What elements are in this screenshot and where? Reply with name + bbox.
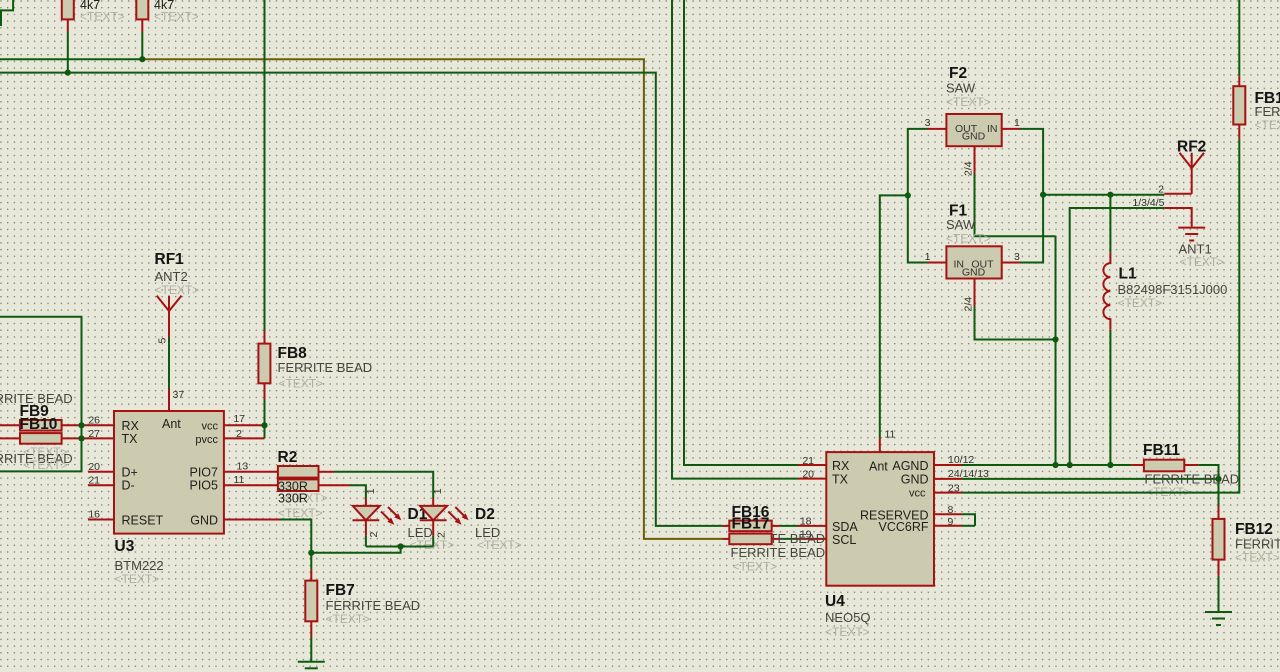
svg-text:2: 2 [368, 532, 380, 538]
wire: F1 pin 1 stub [928, 262, 947, 264]
svg-text:3: 3 [925, 117, 931, 129]
SAW filter F2 [946, 65, 1002, 146]
svg-text:1: 1 [925, 251, 931, 263]
wire: FB11 to FB12 vertical [1198, 465, 1218, 506]
svg-text:8: 8 [948, 504, 954, 516]
svg-text:<TEXT>: <TEXT> [155, 283, 200, 297]
ground symbol (below FB7) [298, 662, 325, 669]
wire: cathode joining run [366, 546, 433, 548]
wire: FB7 to ground [310, 638, 312, 662]
svg-text:Ant: Ant [869, 460, 888, 474]
svg-text:<TEXT>: <TEXT> [1235, 551, 1280, 565]
svg-text:17: 17 [233, 413, 245, 425]
node: junction SAW gnd / AGND [1052, 462, 1058, 468]
svg-text:TX: TX [122, 432, 139, 446]
wire: D1 cathode down [365, 520, 367, 546]
svg-text:FB10: FB10 [20, 416, 58, 433]
wire: U3 left loop (enters left edge) [0, 317, 82, 472]
wire: F2 pin 2/4 ground [963, 146, 1056, 236]
svg-text:ANT2: ANT2 [155, 269, 188, 284]
wire: U4 Ant pin 11 [880, 195, 908, 452]
ground symbol (RF2) [1178, 228, 1224, 269]
ferrite bead FB13 (top right) [1233, 76, 1280, 139]
wire: top rail 1 olive continuation down to FB17/SCL [142, 59, 722, 539]
wire: U4 RESERVED pin 8 loop [934, 514, 975, 526]
wire: U4 AGND pin 10/12 run [934, 464, 1131, 466]
IC U3 BTM222 [114, 411, 224, 586]
wire: F1 pin 2/4 ground [963, 279, 1056, 340]
wire: U3 D- pin stub [88, 484, 114, 486]
svg-text:1/3/4/5: 1/3/4/5 [1132, 197, 1164, 209]
svg-text:D2: D2 [475, 506, 495, 523]
svg-text:U3: U3 [115, 538, 135, 555]
svg-text:330R: 330R [278, 492, 308, 506]
svg-text:vcc: vcc [202, 421, 219, 433]
node: junction 4k7 right on rail1 [139, 56, 145, 62]
svg-text:FERRITE BEAD: FERRITE BEAD [731, 545, 826, 560]
resistor R? 4k7 (second, cut off at top) [136, 0, 198, 59]
wire: U4 VCC6RF pin 9 loop [934, 525, 975, 527]
svg-text:<TEXT>: <TEXT> [477, 538, 522, 552]
svg-text:10/12: 10/12 [948, 454, 974, 466]
svg-text:2: 2 [436, 532, 448, 538]
svg-text:24/14/13: 24/14/13 [948, 468, 989, 480]
svg-text:FB11: FB11 [1143, 442, 1180, 459]
svg-text:TX: TX [832, 473, 849, 487]
node: junction GND/FB7 [308, 550, 314, 556]
svg-text:SCL: SCL [832, 533, 856, 547]
svg-text:1: 1 [365, 488, 377, 494]
svg-text:3: 3 [1014, 251, 1020, 263]
wire: junction down to gnd run [311, 547, 400, 553]
wire: top rail 2 down to FB16/SDA [0, 73, 723, 526]
ferrite bead FB9 (left edge) [0, 391, 114, 431]
svg-text:RX: RX [122, 419, 140, 433]
svg-text:AGND: AGND [892, 459, 928, 473]
wire: U3 pvcc pin 2 [224, 437, 265, 439]
svg-text:<TEXT>: <TEXT> [733, 560, 778, 574]
svg-text:RESET: RESET [122, 514, 164, 528]
IC U4 NEO5Q [825, 452, 934, 639]
svg-text:FB7: FB7 [326, 582, 355, 599]
svg-text:vcc: vcc [909, 488, 926, 500]
svg-text:SAW: SAW [946, 81, 976, 96]
wire: U4 GND pin 24/14/13 run [934, 478, 1219, 480]
wire: RF1 to U3 Ant [168, 338, 170, 389]
svg-text:<TEXT>: <TEXT> [23, 458, 68, 472]
node: junction RX row x=81.5 [78, 422, 84, 428]
svg-text:<TEXT>: <TEXT> [1255, 118, 1280, 132]
svg-text:GND: GND [901, 473, 929, 487]
wire: PIO7 pin 13 to R2 [224, 471, 278, 473]
node: junction F2 pin1 net [1040, 192, 1046, 198]
wire: RF2 pin 2 [1164, 193, 1191, 195]
svg-text:FERRITE: FERRITE [1255, 104, 1280, 119]
ferrite bead FB12 [1213, 506, 1280, 576]
resistor R3 330R (stacked under R2) [278, 479, 328, 520]
svg-text:<TEXT>: <TEXT> [326, 612, 371, 626]
wire: F2 pin 3 [928, 128, 947, 130]
wire: left edge stub [0, 10, 2, 26]
wire: top rail 1 (green part) [0, 58, 142, 60]
svg-text:RX: RX [832, 459, 850, 473]
wire: long vertical to U4 RX [684, 0, 798, 465]
node: junction RF2 gnd / AGND [1067, 462, 1073, 468]
node: junction 4k7 left on rail2 [65, 70, 71, 76]
svg-text:U4: U4 [825, 593, 845, 610]
svg-text:<TEXT>: <TEXT> [154, 10, 199, 24]
svg-text:<TEXT>: <TEXT> [80, 10, 125, 24]
svg-text:<TEXT>: <TEXT> [278, 506, 323, 520]
svg-text:<TEXT>: <TEXT> [946, 95, 991, 109]
wire: top-left corner stub [0, 0, 13, 10]
wire: U3 GND pin to FB7 [224, 520, 311, 570]
wire: U3 Ant pin 37 stub [168, 389, 170, 412]
svg-text:21: 21 [802, 455, 814, 467]
antenna RF2 [1177, 139, 1206, 194]
svg-text:GND: GND [190, 514, 218, 528]
ferrite bead FB11 [1131, 442, 1198, 471]
wire: PIO5 pin 11 to R3 [224, 484, 278, 486]
svg-text:26: 26 [88, 415, 100, 427]
node: junction L1 / AGND [1107, 462, 1113, 468]
wire: D2 cathode down [432, 520, 434, 546]
wire: U4 RX pin stub [798, 464, 826, 466]
wire: F2-F1 link vertical (with U4 Ant tap) [908, 129, 928, 263]
wire: U3 RESET pin stub [88, 519, 114, 521]
svg-text:2: 2 [1158, 184, 1164, 196]
antenna RF1 [155, 251, 200, 344]
resistor R? 4k7 (left, cut off at top) [62, 0, 125, 73]
svg-text:13: 13 [237, 461, 249, 473]
svg-text:<TEXT>: <TEXT> [1118, 296, 1163, 310]
svg-text:SAW: SAW [946, 217, 976, 232]
wire: U4 SDA pin stub [780, 525, 826, 527]
svg-text:20: 20 [802, 469, 814, 481]
node: junction Ant tap [905, 192, 911, 198]
wire: FB12 to ground [1218, 576, 1220, 612]
wire: long vertical to U4 TX [672, 0, 798, 479]
ferrite bead FB17 [723, 516, 826, 574]
svg-text:pvcc: pvcc [195, 434, 218, 446]
wire: RF2 feed line [1043, 194, 1164, 196]
wire: U4 TX pin stub [798, 478, 826, 480]
LED D2 [420, 488, 522, 552]
svg-text:BTM222: BTM222 [115, 558, 164, 573]
wire: R2 to D2 anode [319, 472, 434, 507]
LED D1 [353, 488, 455, 552]
svg-text:FERRITE BEAD: FERRITE BEAD [278, 360, 373, 375]
svg-text:11: 11 [885, 429, 896, 441]
wire: SAW ground vertical to AGND [1055, 236, 1057, 465]
wire: RF2 pins 1/3/4/5 to ground [1070, 208, 1192, 465]
svg-text:PIO5: PIO5 [190, 479, 219, 493]
ferrite bead FB16 [723, 504, 781, 531]
resistor R2 330R [278, 449, 319, 478]
svg-text:D-: D- [122, 479, 135, 493]
svg-text:F2: F2 [949, 65, 967, 82]
wire: R3 to D1 anode [319, 485, 366, 507]
SAW filter F1 [946, 203, 1002, 279]
svg-text:D+: D+ [122, 466, 138, 480]
svg-text:RF1: RF1 [155, 251, 185, 268]
svg-text:37: 37 [173, 389, 185, 401]
ferrite bead FB8 [258, 344, 372, 391]
svg-text:2/4: 2/4 [963, 161, 975, 176]
svg-text:23: 23 [948, 483, 960, 495]
svg-text:2: 2 [236, 428, 242, 440]
wire: F1 pin 3 to RF2 net [1002, 129, 1043, 263]
wire: U4 vcc pin 23 run to top-right rail [934, 0, 1239, 493]
node: junction LED cathodes [398, 543, 404, 549]
svg-text:<TEXT>: <TEXT> [946, 232, 991, 246]
svg-text:NEO5Q: NEO5Q [825, 610, 871, 625]
ferrite bead FB7 [305, 569, 420, 637]
node: junction L1 top [1107, 192, 1113, 198]
node: junction F1 2/4 [1052, 336, 1058, 342]
svg-text:FERRITE BEAD: FERRITE BEAD [326, 598, 421, 613]
svg-text:VCC6RF: VCC6RF [878, 520, 928, 534]
ferrite bead FB10 (left edge) [0, 416, 114, 472]
wire: FB8 vertical net from top [264, 0, 266, 438]
svg-text:1: 1 [432, 488, 444, 494]
svg-text:IN: IN [987, 123, 998, 135]
svg-text:SDA: SDA [832, 520, 858, 534]
svg-text:<TEXT>: <TEXT> [825, 625, 870, 639]
node: junction GND / FB12 line [1215, 476, 1221, 482]
ground symbol (FB12) [1205, 612, 1232, 625]
svg-text:FB12: FB12 [1235, 521, 1273, 538]
svg-text:27: 27 [88, 428, 100, 440]
svg-text:R2: R2 [278, 449, 298, 466]
svg-text:<TEXT>: <TEXT> [410, 538, 455, 552]
svg-text:B82498F3151J000: B82498F3151J000 [1118, 282, 1228, 297]
wire: U3 D+ pin stub [88, 471, 114, 473]
svg-text:2/4: 2/4 [963, 297, 975, 312]
svg-text:5: 5 [157, 338, 169, 344]
svg-text:GND: GND [962, 131, 986, 143]
svg-text:GND: GND [962, 267, 986, 279]
svg-text:<TEXT>: <TEXT> [115, 572, 160, 586]
svg-text:9: 9 [948, 516, 954, 528]
svg-text:<TEXT>: <TEXT> [1180, 255, 1225, 269]
svg-text:<TEXT>: <TEXT> [279, 377, 324, 391]
svg-text:1: 1 [1014, 117, 1020, 129]
svg-text:Ant: Ant [162, 417, 181, 431]
svg-text:11: 11 [234, 474, 245, 486]
svg-text:FB17: FB17 [732, 516, 770, 533]
wire: F2 pin 1 [1002, 128, 1020, 130]
svg-text:PIO7: PIO7 [190, 466, 219, 480]
wire: U4 SCL pin stub [780, 538, 826, 540]
node: junction TX row x=81.5 [78, 435, 84, 441]
svg-text:L1: L1 [1119, 266, 1137, 283]
node: junction vcc/pvcc/FB8 [261, 422, 267, 428]
inductor L1 B82498F3151J000 [1103, 195, 1227, 465]
svg-text:18: 18 [800, 516, 812, 528]
svg-text:FERRITE: FERRITE [1235, 537, 1280, 552]
wire: U3 vcc pin 17 [224, 424, 265, 426]
